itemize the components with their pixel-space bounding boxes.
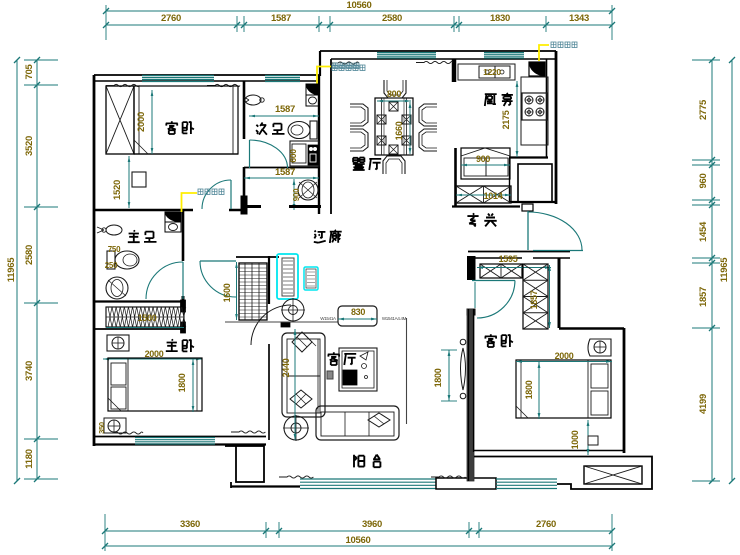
SE annex walls: [557, 457, 652, 490]
svg-text:705: 705: [24, 64, 35, 80]
SE annex platform X: [584, 466, 642, 484]
living room dim 2440: [294, 329, 296, 440]
balcony south pier: [436, 478, 496, 489]
bedroom2 bed: [516, 360, 611, 418]
dining curtain left: [330, 62, 359, 64]
master bedroom floor lamp: [104, 418, 126, 433]
secondary bath east wall x319: [318, 75, 320, 214]
svg-text:1830: 1830: [490, 13, 510, 24]
bedroom2 east wall x624: [623, 328, 626, 453]
kitchen window: [484, 52, 524, 54]
label kitchen: [485, 94, 497, 106]
bedroom2 dim 1800: [538, 362, 540, 419]
dining west inner wall x331: [330, 59, 332, 214]
svg-text:1520: 1520: [112, 180, 123, 200]
master bedroom dim 2000: [103, 358, 202, 360]
kitchen/entry west wall lower: [454, 148, 457, 207]
entry shoe cabinet horizontal: [480, 264, 522, 278]
kitchen dim 2175: [516, 81, 518, 157]
balcony south window left: [300, 478, 436, 480]
entry cabinet 900: [461, 148, 510, 179]
yellow leader kitchen flue: [539, 45, 549, 61]
dining table: [375, 98, 413, 155]
bedroom2 south wall band: [474, 450, 624, 452]
secondary bath shower basin: [298, 180, 318, 200]
label guest bedroom 1: [166, 121, 178, 134]
label guest bedroom 2: [485, 334, 497, 347]
svg-text:830: 830: [351, 307, 365, 317]
svg-text:1014: 1014: [484, 191, 503, 201]
svg-text:W1541A: W1541A: [320, 316, 336, 321]
yellow leader master bath flue: [182, 193, 198, 212]
bedroom1 interior dims: [151, 90, 153, 154]
secondary bath dim 1587 upper: [249, 115, 319, 117]
chair right1: [419, 104, 437, 126]
secondary bath door: [249, 140, 251, 168]
top dimension row segments: [106, 24, 612, 26]
chair top: [384, 80, 406, 98]
living room radiator: [460, 339, 466, 345]
svg-text:1660: 1660: [394, 121, 404, 140]
master bedroom curtains: [106, 432, 143, 434]
svg-text:1220: 1220: [483, 67, 501, 77]
secondary bath dim 1587 lower: [244, 177, 319, 179]
svg-text:800: 800: [387, 89, 401, 99]
side table 830: [338, 306, 377, 326]
rug with pattern: [339, 348, 377, 391]
corridor wardrobe hatched: [239, 263, 267, 320]
master bedroom south window: [135, 437, 215, 439]
svg-text:2760: 2760: [161, 13, 181, 24]
master bed dim 1800: [192, 359, 194, 412]
guest bedroom1 bottom wall y210: [94, 209, 193, 211]
dining curtain right: [416, 61, 453, 63]
master bedroom north wall y329: [94, 328, 185, 330]
svg-text:2175: 2175: [501, 110, 511, 129]
label entry hall: [467, 213, 478, 226]
svg-text:3520: 3520: [24, 136, 35, 156]
svg-text:1800: 1800: [177, 373, 187, 392]
top dimension row overall 10560: [106, 10, 612, 12]
svg-text:1857: 1857: [529, 290, 539, 309]
balcony south window right: [496, 478, 557, 480]
kitchen stove: [522, 93, 547, 120]
bedroom2 door: [472, 280, 515, 282]
entry door: [527, 211, 529, 250]
cyan cabinet small: [304, 267, 318, 290]
bedroom1 wardrobe: [106, 86, 134, 154]
svg-text:1587: 1587: [275, 167, 295, 178]
svg-text:4199: 4199: [698, 394, 709, 414]
kitchen flue black: [529, 62, 545, 76]
svg-text:750: 750: [108, 245, 121, 254]
bedroom2 nightstand: [588, 339, 611, 356]
right dimension column: [711, 60, 713, 481]
kitchen east inner wall x546.5: [546, 59, 548, 158]
secondary bath washer: [290, 141, 319, 166]
entry shoe cabinet vertical: [523, 264, 548, 329]
svg-text:11965: 11965: [6, 257, 17, 282]
master bath toilet: [107, 251, 115, 269]
yellow leader secondary bath flue: [317, 67, 331, 94]
kitchen south wall y158: [509, 156, 548, 158]
secondary bath flue symbol: [306, 84, 319, 95]
top wall middle band (y51-59): [320, 50, 556, 52]
svg-text:10560: 10560: [346, 535, 371, 546]
bedroom1 curtains: [106, 84, 140, 86]
master bedroom east wall x269: [268, 256, 270, 304]
sofa vertical section: [282, 333, 325, 417]
balcony curtains: [279, 476, 313, 478]
kitchen side counter: [521, 77, 548, 145]
master bath east wall: [182, 210, 185, 261]
master bed: [108, 358, 202, 411]
svg-text:900: 900: [476, 154, 490, 164]
label master bath: [128, 230, 140, 242]
entry cabinet 1014: [456, 186, 511, 203]
secondary bath bottom wall stubs: [247, 205, 261, 208]
svg-text:2580: 2580: [382, 13, 402, 24]
master bath shower: [106, 277, 128, 299]
corridor ceiling lamp: [282, 299, 304, 321]
svg-text:1500: 1500: [138, 313, 157, 323]
bottom dimension rows: [105, 530, 612, 532]
small black box: [281, 322, 290, 327]
bedroom2 west wall: [468, 257, 476, 280]
svg-text:3360: 3360: [180, 519, 200, 530]
secondary bath sink: [245, 95, 261, 105]
svg-text:1595: 1595: [499, 254, 518, 264]
living room lamp: [284, 416, 308, 440]
label secondary bath: [256, 123, 267, 135]
label master bedroom: [166, 339, 178, 351]
svg-text:11965: 11965: [719, 257, 730, 282]
svg-text:2000: 2000: [555, 351, 574, 361]
corridor wardrobe dim 1600: [236, 262, 238, 320]
bedroom1 nightstand: [132, 172, 146, 187]
svg-text:1180: 1180: [24, 449, 35, 468]
svg-text:1454: 1454: [698, 221, 709, 242]
master bath east wall stubs: [181, 300, 186, 312]
entry door stub: [522, 204, 533, 211]
outer left wall: [93, 75, 96, 446]
svg-text:2580: 2580: [24, 245, 35, 265]
svg-text:1587: 1587: [275, 104, 295, 115]
thin beam line: [225, 321, 338, 323]
svg-text:2775: 2775: [698, 99, 709, 120]
svg-text:3960: 3960: [362, 519, 382, 530]
bedroom2 step wall y328: [559, 327, 624, 330]
sofa pillow diamonds: [292, 332, 312, 352]
label dining room: [353, 158, 365, 171]
svg-text:1000: 1000: [570, 430, 580, 449]
cyan cabinet tall: [277, 254, 298, 299]
svg-text:1800: 1800: [433, 368, 443, 387]
bedroom1 bed: [134, 86, 238, 154]
window above second bath: [265, 75, 300, 77]
sofa horizontal couch: [316, 406, 399, 440]
entry hall north walls: [509, 201, 557, 203]
master bath door: [182, 262, 184, 299]
master bath sink: [106, 225, 122, 235]
master bedroom nightstand with lamp: [107, 335, 129, 351]
svg-text:1857: 1857: [698, 287, 709, 307]
small gray box left: [327, 371, 333, 379]
secondary bath toilet: [288, 122, 310, 139]
chair left2: [350, 129, 368, 151]
svg-text:10560: 10560: [347, 0, 372, 11]
svg-text:W1541A4.4M: W1541A4.4M: [382, 316, 407, 321]
bedroom2 dim 2000: [516, 361, 612, 363]
dining window 1: [377, 52, 436, 54]
top wall band of guest bedroom / bath (y75-81): [94, 74, 320, 76]
label balcony: [354, 455, 364, 468]
left dimension column: [16, 60, 18, 481]
living room vertical line x406: [406, 318, 408, 424]
corridor nook door: [200, 260, 236, 262]
svg-text:2000: 2000: [136, 112, 147, 132]
label corridor: [314, 231, 326, 243]
svg-text:350: 350: [97, 422, 106, 434]
svg-text:3740: 3740: [24, 361, 35, 381]
svg-text:1343: 1343: [569, 13, 589, 24]
label living room: [328, 352, 340, 365]
couch diamond pillow: [368, 413, 390, 427]
master bath flue: [165, 212, 181, 222]
living room radiator dim 1800: [448, 350, 450, 401]
svg-text:1600: 1600: [222, 283, 232, 302]
secondary bath mid wall y167: [244, 167, 319, 169]
svg-text:600: 600: [288, 149, 298, 163]
svg-text:1800: 1800: [524, 380, 534, 399]
master bath south wall y301: [94, 300, 185, 302]
chair bottom: [383, 156, 405, 174]
svg-text:250: 250: [105, 261, 118, 270]
svg-text:960: 960: [698, 174, 709, 189]
chair right2: [419, 129, 437, 151]
elevator shaft: [518, 164, 552, 202]
balcony west column: [236, 446, 264, 482]
bedroom2 dim 1000: [587, 420, 589, 455]
guest bedroom1 east wall (secondary bath west) x244: [243, 81, 246, 139]
svg-text:2440: 2440: [281, 358, 291, 377]
chair left1: [350, 104, 368, 126]
svg-text:900: 900: [292, 188, 301, 201]
kitchen west wall upper: [452, 59, 457, 82]
bedroom2 east wall upper x559: [558, 258, 561, 328]
guest bedroom1 door: [230, 180, 232, 209]
master bedroom radiator 1500: [106, 307, 184, 327]
svg-text:1587: 1587: [271, 13, 291, 24]
kitchen top counter and sink: [458, 64, 515, 80]
entry hall south wall band y251-258: [468, 251, 570, 253]
step wall x320 between sections: [319, 51, 321, 76]
kitchen east outer wall: [555, 51, 558, 204]
corridor south wall segment: [236, 256, 279, 258]
master bedroom south wall band y436-445: [94, 436, 266, 438]
svg-text:2760: 2760: [536, 519, 556, 530]
window top-left bedroom: [142, 75, 214, 77]
balcony south: left solid: [231, 485, 300, 487]
master bedroom door: [251, 305, 291, 345]
